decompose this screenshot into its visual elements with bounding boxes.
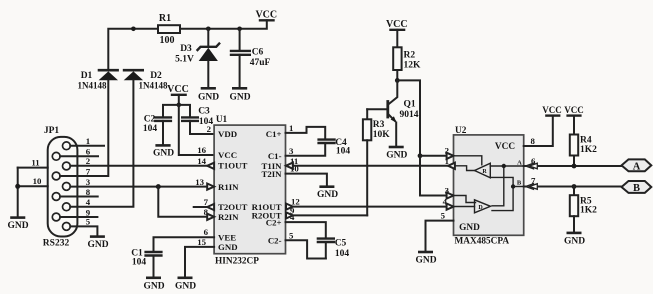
svg-text:T2IN: T2IN [261, 169, 282, 179]
svg-text:13: 13 [195, 177, 204, 187]
svg-text:C5: C5 [335, 239, 347, 249]
wire C2-C3 header [163, 105, 190, 117]
wire U1 T2IN to ground [286, 174, 327, 187]
connector JP1 DB9 outline [48, 137, 78, 237]
svg-text:MAX485CPA: MAX485CPA [455, 237, 510, 247]
wire U1 R1OUT to U2 DI [293, 206, 447, 208]
svg-text:GND: GND [317, 190, 338, 200]
wire branch to U1 R2IN [158, 187, 207, 217]
svg-text:5: 5 [441, 210, 446, 220]
ground below C1 [143, 278, 164, 292]
wire VCC node to U1 pin16 [179, 105, 214, 155]
svg-text:5.1V: 5.1V [175, 55, 194, 65]
power VCC U2 pin8 [542, 105, 562, 116]
wire DB9 pin5 to ground [70, 226, 97, 236]
svg-text:GND: GND [143, 281, 164, 291]
svg-text:GND: GND [218, 242, 238, 252]
svg-text:3: 3 [289, 146, 294, 156]
svg-text:104: 104 [132, 258, 147, 268]
U2 internal wires [454, 156, 524, 211]
wire shell pin 10 [18, 185, 48, 187]
node junction B-R5 [572, 184, 577, 189]
svg-text:VCC: VCC [542, 105, 562, 115]
svg-text:2: 2 [86, 156, 91, 166]
svg-text:GND: GND [175, 281, 196, 291]
wire DB9 pin3 to U1 R1IN [70, 186, 207, 188]
svg-text:U2: U2 [455, 126, 467, 136]
wire D2 to DB9 pin4 [70, 80, 133, 207]
wire DB9 pin8 stub [60, 196, 98, 198]
svg-text:12K: 12K [404, 61, 422, 71]
svg-text:2: 2 [207, 124, 212, 134]
svg-text:GND: GND [229, 93, 250, 103]
svg-text:GND: GND [198, 93, 219, 103]
svg-text:GND: GND [153, 149, 174, 159]
node junction A internal [502, 164, 506, 168]
U2 driver buffer D [475, 200, 491, 213]
svg-text:3: 3 [86, 177, 91, 187]
wire DB9 pin6 stub [60, 155, 98, 157]
wire C3 to U1 pin2 [190, 121, 214, 134]
svg-text:100: 100 [160, 35, 175, 46]
svg-text:D3: D3 [180, 44, 192, 54]
svg-text:5: 5 [289, 230, 294, 240]
U2 pin arrowheads left [447, 153, 455, 210]
capacitor C1 104 [131, 237, 214, 277]
resistor R3 10K [363, 109, 390, 215]
svg-text:14: 14 [197, 156, 206, 166]
wire node to U2 pin3 [420, 156, 447, 196]
wire node to U2 pin2 [420, 155, 447, 157]
svg-text:GND: GND [87, 240, 108, 250]
svg-text:104: 104 [336, 146, 351, 156]
U2 pin numbers [441, 146, 450, 221]
svg-text:7: 7 [204, 197, 209, 207]
power VCC mid (above C2 C3) [167, 84, 189, 105]
svg-text:8: 8 [86, 187, 91, 197]
svg-text:VCC: VCC [495, 142, 515, 152]
DB9 pin numbers [86, 136, 91, 227]
ground U2 pin5 [415, 252, 436, 266]
svg-text:Q1: Q1 [404, 100, 416, 110]
svg-text:1: 1 [86, 136, 90, 146]
svg-text:5: 5 [86, 217, 91, 227]
svg-text:VCC: VCC [386, 19, 408, 30]
wire top rail left segment [108, 29, 158, 70]
svg-text:VCC: VCC [218, 150, 237, 160]
power VCC above R2 [386, 19, 408, 47]
wire U1 GND pin15 to ground [185, 247, 214, 278]
svg-text:4: 4 [86, 197, 91, 207]
svg-text:16: 16 [197, 145, 206, 155]
svg-text:RS232: RS232 [43, 239, 70, 249]
svg-text:VEE: VEE [218, 232, 236, 242]
wire top rail right segment [180, 20, 267, 29]
svg-text:1K2: 1K2 [580, 145, 597, 155]
wire shell to ground [17, 168, 19, 218]
svg-text:1N4148: 1N4148 [139, 81, 168, 91]
svg-text:10K: 10K [373, 130, 391, 140]
svg-text:R3: R3 [373, 120, 385, 130]
capacitor C2 104 [143, 115, 171, 146]
connector B hexagon [622, 181, 652, 194]
svg-text:9014: 9014 [400, 110, 419, 120]
svg-text:C1-: C1- [268, 151, 282, 161]
resistor R5 1K2 [570, 187, 597, 233]
svg-text:VCC: VCC [255, 10, 277, 21]
node junction RE-DE [418, 153, 423, 158]
svg-text:GND: GND [415, 256, 436, 266]
diode D2 1N4148 [124, 70, 168, 90]
svg-text:6: 6 [204, 227, 209, 237]
svg-text:R2IN: R2IN [218, 212, 239, 222]
wire U1 T1IN to U2 RO [293, 165, 448, 167]
node junction R1IN-R2IN [156, 184, 161, 189]
svg-text:7: 7 [86, 166, 91, 176]
svg-text:1K2: 1K2 [580, 206, 597, 216]
wire DB9 pin2 to U1 T1OUT [70, 165, 207, 167]
svg-text:R2: R2 [404, 51, 416, 61]
svg-text:C2+: C2+ [266, 217, 282, 227]
wire shell pin 11 [18, 167, 48, 169]
svg-text:C2: C2 [144, 115, 156, 125]
wire U2 pin8 to VCC [524, 116, 553, 146]
ground T2IN [317, 187, 338, 200]
svg-text:47uF: 47uF [250, 58, 271, 68]
svg-text:T1OUT: T1OUT [218, 161, 247, 171]
wire collector node to U2 enables [397, 80, 420, 155]
arrowheads A line [526, 163, 538, 169]
svg-text:VCC: VCC [167, 84, 189, 95]
node junction D2-rail [131, 27, 136, 32]
ground below C2 [153, 145, 174, 158]
transistor Q1 9014 [367, 80, 419, 146]
zener diode D3 5.1V [175, 29, 219, 88]
ground DB9 pin5 [87, 237, 108, 250]
svg-text:VCC: VCC [564, 105, 584, 115]
arrowheads B line [526, 184, 538, 190]
svg-text:1: 1 [289, 123, 293, 133]
svg-text:A: A [517, 160, 522, 167]
node junction B internal [511, 184, 515, 188]
svg-text:1N4148: 1N4148 [78, 81, 107, 91]
svg-text:D2: D2 [150, 71, 162, 81]
svg-text:11: 11 [31, 158, 39, 168]
wire U1 R2OUT to R3 [293, 214, 367, 216]
svg-text:104: 104 [335, 249, 350, 259]
svg-text:R1: R1 [159, 13, 171, 24]
power VCC R4 [564, 105, 584, 135]
wire DB9 pin1 stub [70, 145, 104, 147]
svg-text:GND: GND [459, 223, 480, 233]
capacitor C3 104 [182, 107, 213, 128]
svg-text:C2-: C2- [268, 236, 282, 246]
wire U1 T2OUT stub [194, 206, 208, 208]
diode D1 1N4148 [78, 70, 119, 90]
svg-text:6: 6 [86, 147, 91, 157]
wire DB9 pin9 stub [60, 216, 97, 218]
svg-text:HIN232CP: HIN232CP [215, 257, 259, 267]
ground U1 pin15 [175, 278, 196, 292]
svg-text:A: A [633, 162, 641, 173]
node junction D3-rail [206, 27, 211, 32]
svg-text:D: D [478, 205, 483, 211]
svg-text:15: 15 [197, 237, 206, 247]
capacitor C4 104 [286, 127, 351, 156]
node junction shell [15, 184, 20, 189]
ground below R5 [564, 233, 585, 247]
svg-text:VDD: VDD [218, 129, 237, 139]
svg-text:C3: C3 [198, 107, 210, 117]
svg-text:B: B [633, 183, 640, 194]
wire B line [524, 186, 622, 188]
connector A hexagon [622, 159, 652, 172]
svg-text:B: B [517, 180, 522, 187]
svg-text:R4: R4 [580, 136, 592, 146]
ground below C6 [229, 88, 250, 102]
resistor R4 1K2 [570, 135, 597, 167]
svg-text:8: 8 [531, 136, 536, 146]
ground Q1 emitter [386, 147, 407, 161]
svg-text:C1+: C1+ [266, 129, 282, 139]
resistor R2 12K [393, 47, 421, 80]
U1 pin numbers [195, 124, 211, 247]
svg-text:GND: GND [564, 237, 585, 247]
op-amp U2 MAX485CPA body [454, 135, 524, 235]
svg-text:GND: GND [386, 151, 407, 161]
op-amp U1 HIN232CP body [214, 125, 285, 254]
svg-text:C6: C6 [252, 48, 264, 58]
svg-text:GND: GND [7, 221, 28, 231]
wire A line [524, 165, 622, 167]
svg-text:10: 10 [33, 176, 42, 186]
svg-text:R: R [482, 169, 487, 175]
svg-text:D1: D1 [81, 71, 93, 81]
ground shell [7, 218, 28, 231]
wire D1 to DB9 pin7 [60, 80, 108, 176]
wire U2 pin5 to ground [426, 221, 454, 252]
U2 receiver buffer R [475, 163, 491, 178]
node junction C6-rail [237, 27, 242, 32]
node junction A-R4 [572, 164, 577, 169]
capacitor C6 47uF [231, 29, 270, 88]
U1 pin arrowheads [207, 163, 293, 220]
svg-text:T2OUT: T2OUT [218, 202, 247, 212]
node junction collector [395, 78, 400, 83]
U1 pin names [218, 129, 247, 252]
svg-text:JP1: JP1 [44, 126, 60, 136]
capacitor C5 104 [286, 222, 350, 259]
power VCC top-right [255, 10, 277, 21]
ground below D3 [198, 88, 219, 102]
node junction VCC-mid [177, 103, 182, 108]
DB9 pin holes [52, 142, 70, 230]
svg-text:104: 104 [143, 124, 158, 134]
resistor R1 [158, 13, 180, 46]
svg-text:U1: U1 [216, 115, 228, 125]
svg-text:R1IN: R1IN [218, 182, 239, 192]
